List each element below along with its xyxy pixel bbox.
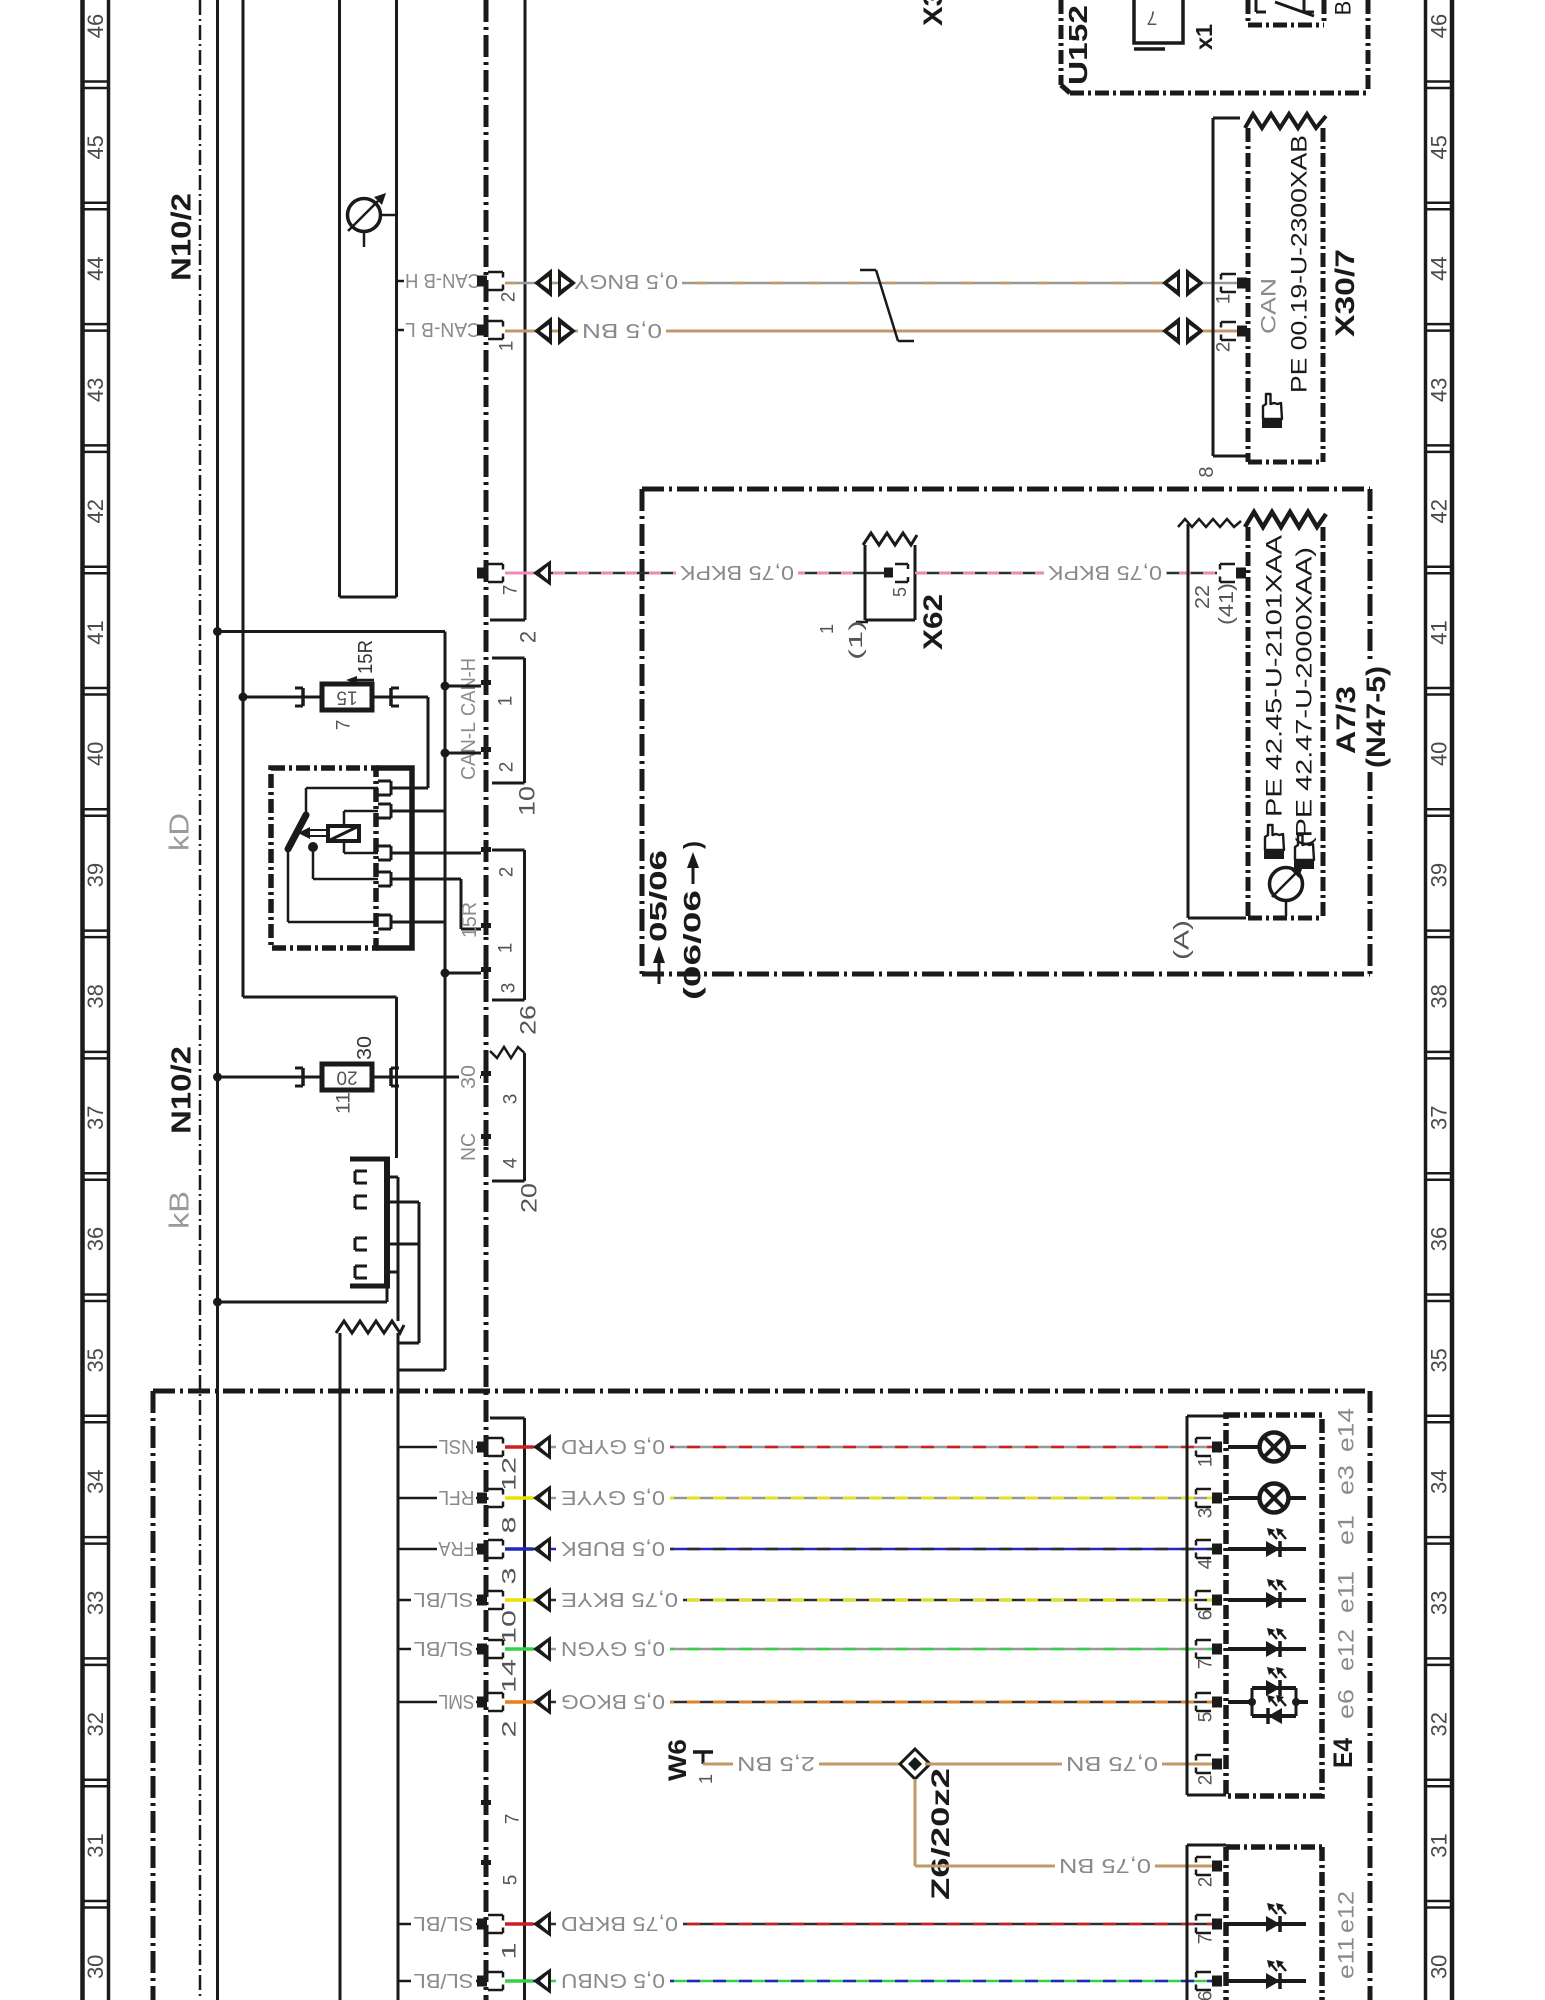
svg-text:2: 2 bbox=[1196, 1877, 1217, 1888]
svg-text:CAN-B H: CAN-B H bbox=[405, 269, 481, 291]
fuse F20 terminals bbox=[301, 1068, 305, 1086]
relay internal wires bbox=[305, 788, 308, 815]
svg-text:1: 1 bbox=[817, 624, 837, 634]
E4 pin bbox=[1212, 1544, 1222, 1555]
ruler tick row 12 bbox=[83, 1536, 109, 1539]
svg-text:41: 41 bbox=[1427, 620, 1452, 644]
svg-text:e14: e14 bbox=[1334, 1408, 1359, 1452]
lamp housing dash-dot box bbox=[153, 1389, 1370, 1394]
E4 pin bbox=[1212, 1442, 1222, 1453]
wire 0,5 BNGY (CAN-B H) bbox=[505, 282, 1163, 285]
svg-text:e3: e3 bbox=[1334, 1465, 1359, 1495]
pin 7 BKPK bbox=[477, 568, 487, 579]
wire 0,75 BKPK left segment bbox=[505, 572, 865, 575]
svg-text:43: 43 bbox=[1427, 378, 1452, 402]
svg-text:33: 33 bbox=[83, 1591, 108, 1615]
E4 pin bbox=[1212, 1493, 1222, 1504]
svg-text:N10/2: N10/2 bbox=[166, 1046, 197, 1134]
E4 double LED e6 (pin5) bbox=[1228, 1700, 1252, 1704]
svg-text:SL/BL: SL/BL bbox=[414, 1912, 474, 1934]
E4 LED e1 (pin4) bbox=[1228, 1547, 1306, 1551]
svg-text:W6: W6 bbox=[664, 1739, 692, 1781]
ruler tick row 0 bbox=[83, 80, 109, 83]
svg-text:30: 30 bbox=[354, 1036, 376, 1060]
svg-text:34: 34 bbox=[1427, 1469, 1452, 1493]
svg-text:e11: e11 bbox=[1334, 1571, 1359, 1613]
svg-text:SL/BL: SL/BL bbox=[414, 1969, 474, 1991]
svg-text:38: 38 bbox=[83, 984, 108, 1008]
svg-text:3: 3 bbox=[499, 983, 520, 994]
svg-text:11: 11 bbox=[334, 1092, 355, 1114]
lower lamp unit box bbox=[1223, 1847, 1229, 2000]
component U152 dash-dot box bbox=[1059, 0, 1064, 85]
svg-text:20: 20 bbox=[336, 1067, 357, 1088]
wire label 0,75 BKPK right bbox=[1044, 560, 1166, 586]
svg-text:2: 2 bbox=[1196, 1775, 1217, 1786]
ruler tick row 3 bbox=[83, 444, 109, 447]
wire label 0,5 BKOG bbox=[556, 1689, 670, 1715]
svg-text:0,5 BNGY: 0,5 BNGY bbox=[574, 270, 678, 292]
svg-text:0,75 BN: 0,75 BN bbox=[1066, 1752, 1158, 1774]
E4 bracket bbox=[1186, 1416, 1189, 1795]
connector arrows CAN-B L (X30/7 side) bbox=[1162, 317, 1180, 346]
svg-text:30: 30 bbox=[458, 1065, 480, 1089]
pin 1 CAN-B L bbox=[477, 325, 487, 336]
E4 pin bbox=[1212, 1697, 1222, 1708]
wire 0,5 BN (CAN-B L) bbox=[505, 330, 1163, 333]
wire 0,5 BUBK bbox=[505, 1548, 1217, 1551]
A7/3 connector torn top zigzag bbox=[1245, 512, 1326, 527]
svg-text:44: 44 bbox=[83, 256, 108, 280]
svg-text:0,5 GYYE: 0,5 GYYE bbox=[561, 1486, 665, 1508]
svg-text:X62: X62 bbox=[918, 594, 948, 650]
transistor symbol in N10/2 bbox=[348, 199, 381, 232]
E4 lamp e14 (pin1) bbox=[1228, 1445, 1259, 1449]
svg-text:SL/BL: SL/BL bbox=[414, 1637, 474, 1659]
component A7/3 housing dash-dot box bbox=[642, 487, 1370, 492]
wire from box to comb bbox=[395, 997, 398, 1158]
svg-text:44: 44 bbox=[1427, 256, 1452, 280]
svg-text:(A): (A) bbox=[1171, 920, 1194, 960]
wire 0,75 BKYE bbox=[505, 1599, 1217, 1602]
lamp unit E4 box bbox=[1226, 1415, 1322, 1796]
ruler tick row 14 bbox=[83, 1778, 109, 1781]
svg-text:0,75 BKRD: 0,75 BKRD bbox=[561, 1912, 678, 1934]
relay coil bbox=[328, 826, 359, 841]
svg-text:(N47-5): (N47-5) bbox=[1361, 666, 1391, 768]
ruler tick row 6 bbox=[83, 808, 109, 811]
wire label 0,5 BN bbox=[578, 318, 666, 344]
svg-text:12: 12 bbox=[500, 1457, 521, 1491]
svg-text:32: 32 bbox=[83, 1712, 108, 1736]
svg-text:RFL: RFL bbox=[439, 1486, 475, 1508]
svg-text:7: 7 bbox=[501, 585, 522, 596]
comb connector bar bbox=[384, 1157, 390, 1288]
svg-text:N10/2: N10/2 bbox=[166, 193, 197, 281]
svg-text:33: 33 bbox=[1427, 1591, 1452, 1615]
svg-text:e6: e6 bbox=[1334, 1689, 1359, 1719]
svg-text:kB: kB bbox=[164, 1191, 195, 1229]
comb pins bbox=[355, 1170, 367, 1173]
ground point W6 bbox=[693, 1750, 713, 1754]
connector 26 bracket bbox=[523, 850, 526, 1000]
svg-text:x1: x1 bbox=[1191, 24, 1217, 50]
svg-text:(PE 42.47-U-2000XAA): (PE 42.47-U-2000XAA) bbox=[1292, 547, 1317, 847]
svg-text:E4: E4 bbox=[1328, 1738, 1358, 1768]
connector arrows CAN-B L (N10/2 side) bbox=[534, 317, 552, 346]
svg-text:e12: e12 bbox=[1334, 1891, 1359, 1933]
svg-text:CAN: CAN bbox=[1258, 278, 1281, 334]
svg-text:8: 8 bbox=[1196, 466, 1218, 477]
ruler tick row 4 bbox=[83, 565, 109, 568]
bus bar line x217 bbox=[216, 0, 219, 2000]
A7/3 bracket torn top bbox=[1178, 519, 1241, 527]
svg-text:2: 2 bbox=[499, 292, 520, 303]
svg-text:36: 36 bbox=[1427, 1227, 1452, 1251]
svg-text:45: 45 bbox=[83, 135, 108, 159]
svg-text:39: 39 bbox=[83, 863, 108, 887]
relay bold frame bbox=[376, 768, 412, 948]
svg-text:7: 7 bbox=[1196, 1659, 1217, 1670]
fuse F15 bbox=[322, 684, 372, 710]
svg-text:2: 2 bbox=[516, 631, 541, 643]
pin 2 bbox=[481, 847, 491, 852]
E4 LED e12 (pin7) bbox=[1228, 1647, 1306, 1651]
svg-text:46: 46 bbox=[1427, 14, 1452, 38]
svg-text:10: 10 bbox=[515, 786, 540, 816]
wire 0,75 BN to lower unit pin 2 bbox=[915, 1865, 1217, 1868]
svg-text:15: 15 bbox=[336, 687, 357, 708]
lamp wire row SL/BL y=1649 bbox=[397, 1648, 477, 1651]
lamp wire row SL/BL y=1981 bbox=[397, 1980, 477, 1983]
A7/3 hand symbol 2 bbox=[1294, 835, 1314, 869]
svg-text:NC: NC bbox=[458, 1133, 480, 1161]
connector arrows CAN-B H (X30/7 side) bbox=[1162, 269, 1180, 298]
svg-text:e11: e11 bbox=[1334, 1937, 1359, 1979]
svg-text:30: 30 bbox=[1427, 1955, 1452, 1979]
svg-text:43: 43 bbox=[83, 378, 108, 402]
ruler right band bbox=[1424, 0, 1428, 2000]
relay output wires bbox=[391, 787, 428, 790]
svg-text:05/06: 05/06 bbox=[646, 850, 673, 942]
A7/3 name (N47-5) bbox=[1360, 662, 1391, 772]
lamp wire row SML y=1702 bbox=[397, 1701, 477, 1704]
relay switch arm bbox=[288, 815, 306, 849]
E4 pin bbox=[1212, 1595, 1222, 1606]
svg-text:0,5 BUBK: 0,5 BUBK bbox=[560, 1537, 665, 1559]
svg-text:(41): (41) bbox=[1216, 583, 1238, 625]
comb pin wires bbox=[390, 1176, 398, 1179]
relay dash-dot box bbox=[271, 768, 376, 948]
svg-text:PE 42.45-U-2101XAA: PE 42.45-U-2101XAA bbox=[1262, 535, 1287, 817]
wire 0,5 GYRD bbox=[505, 1446, 1217, 1449]
ruler tick row 5 bbox=[83, 687, 109, 690]
svg-text:41: 41 bbox=[83, 620, 108, 644]
svg-text:22: 22 bbox=[1192, 585, 1214, 609]
wire 0,5 GYYE bbox=[505, 1497, 1217, 1500]
wire BN branch down bbox=[914, 1779, 917, 1866]
lamp connector bar bbox=[523, 1418, 526, 2000]
svg-text:0,5 GNBU: 0,5 GNBU bbox=[561, 1969, 665, 1991]
pin label CAN-B H bbox=[397, 280, 405, 283]
X62 pin 5 bbox=[884, 568, 893, 578]
svg-text:5: 5 bbox=[890, 587, 910, 597]
wire kD boundary dash-dot x200 bbox=[199, 0, 202, 2000]
wire label 0,5 GYYE bbox=[556, 1485, 670, 1511]
ruler tick row 11 bbox=[83, 1415, 109, 1418]
X30/7 bracket bbox=[1212, 118, 1215, 456]
E4 lamp e3 (pin3) bbox=[1228, 1496, 1259, 1500]
relay pins bbox=[378, 780, 391, 783]
E4 pin bbox=[1212, 1644, 1222, 1655]
svg-text:30: 30 bbox=[83, 1955, 108, 1979]
svg-text:20: 20 bbox=[517, 1183, 542, 1213]
wire 0,5 GYGN bbox=[505, 1648, 1217, 1651]
svg-text:0,75 BN: 0,75 BN bbox=[1059, 1854, 1151, 1876]
pin 1 CAN-H bbox=[481, 680, 491, 685]
svg-text:45: 45 bbox=[1427, 135, 1452, 159]
svg-text:0,75 BKPK: 0,75 BKPK bbox=[1047, 561, 1162, 583]
lower unit LED (pin 4) bbox=[1228, 1979, 1306, 1983]
pin 3 bbox=[481, 967, 491, 972]
svg-text:U152: U152 bbox=[1063, 5, 1093, 85]
X62 inner wire bbox=[865, 572, 884, 575]
connector 20 bracket with zigzag top bbox=[490, 1047, 525, 1058]
svg-text:0,75 BKPK: 0,75 BKPK bbox=[679, 561, 794, 583]
svg-text:7: 7 bbox=[1147, 7, 1158, 28]
svg-text:2: 2 bbox=[1214, 342, 1235, 353]
svg-text:kD: kD bbox=[164, 813, 195, 851]
A7/3 bracket bbox=[1187, 524, 1190, 918]
svg-text:1: 1 bbox=[1196, 1457, 1217, 1468]
A7/3 pin 22 bbox=[1236, 568, 1246, 579]
wire 0,5 BKOG bbox=[505, 1701, 1217, 1704]
svg-text:5: 5 bbox=[501, 1875, 522, 1886]
svg-text:(1): (1) bbox=[846, 620, 866, 660]
svg-text:31: 31 bbox=[1427, 1833, 1452, 1857]
fuse F20 wires bbox=[213, 1073, 222, 1082]
svg-text:2,5 BN: 2,5 BN bbox=[737, 1752, 815, 1774]
svg-text:CAN-B L: CAN-B L bbox=[405, 318, 481, 340]
lower unit bracket bbox=[1186, 1845, 1189, 2000]
wire label 0,5 BNGY bbox=[570, 268, 682, 294]
connector X30/7 box bbox=[1246, 128, 1251, 462]
X30/7 hand symbol bbox=[1262, 394, 1282, 428]
svg-text:2: 2 bbox=[497, 867, 518, 878]
svg-text:(06/06: (06/06 bbox=[680, 890, 707, 1000]
wire 0,5 GNBU bbox=[505, 1980, 1217, 1983]
svg-text:40: 40 bbox=[83, 742, 108, 766]
svg-text:A7/3: A7/3 bbox=[1331, 686, 1361, 754]
svg-text:14: 14 bbox=[500, 1658, 521, 1693]
svg-text:3: 3 bbox=[1196, 1508, 1217, 1519]
wire 0,75 BKRD bbox=[505, 1923, 1217, 1926]
svg-text:CAN-L: CAN-L bbox=[458, 722, 480, 780]
svg-text:35: 35 bbox=[1427, 1348, 1452, 1372]
harness boundary dash-dot x486 bbox=[484, 0, 489, 2000]
svg-text:6: 6 bbox=[1196, 1610, 1217, 1621]
wire 2,5 BN bbox=[703, 1763, 905, 1766]
pin 30 bbox=[481, 1071, 491, 1076]
svg-text:34: 34 bbox=[83, 1469, 108, 1493]
ruler left band bbox=[80, 0, 85, 2000]
svg-text:5: 5 bbox=[1196, 1712, 1217, 1723]
svg-text:1: 1 bbox=[1214, 294, 1235, 305]
A7/3 inner connector box bbox=[1246, 527, 1251, 918]
svg-text:37: 37 bbox=[1427, 1105, 1452, 1129]
fuse F15 terminals bbox=[301, 688, 305, 706]
ruler tick row 15 bbox=[83, 1900, 109, 1903]
svg-text:36: 36 bbox=[83, 1227, 108, 1251]
fuse F15 wires bbox=[239, 693, 248, 702]
U152 inner connector box bbox=[1246, 0, 1251, 25]
ruler tick row 9 bbox=[83, 1172, 109, 1175]
svg-text:0,75 BKYE: 0,75 BKYE bbox=[561, 1588, 678, 1610]
U152 inner square with 7 bbox=[1134, 0, 1183, 43]
svg-text:38: 38 bbox=[1427, 984, 1452, 1008]
connector 2 bracket bar bbox=[524, 0, 527, 620]
ruler tick row 10 bbox=[83, 1293, 109, 1296]
pin 2 CAN-L bbox=[481, 747, 491, 752]
wire 0,75 BKPK right segment bbox=[915, 572, 1217, 575]
svg-text:0,5 BN: 0,5 BN bbox=[582, 319, 662, 341]
splice Z6/20z2 bbox=[900, 1749, 930, 1779]
pin 2 CAN-B H bbox=[477, 276, 487, 287]
ruler tick row 8 bbox=[83, 1051, 109, 1054]
control unit N10/2 inner box (transistor) bbox=[338, 0, 341, 597]
svg-text:4: 4 bbox=[1196, 1558, 1217, 1569]
svg-text:15R: 15R bbox=[459, 902, 481, 938]
A7/3 hand symbol 1 bbox=[1264, 825, 1284, 859]
wire 0,75 BN to E4 pin 2 bbox=[925, 1763, 1217, 1766]
svg-text:1: 1 bbox=[496, 943, 517, 954]
lower unit LED (pin7) bbox=[1228, 1922, 1306, 1926]
svg-text:31: 31 bbox=[83, 1833, 108, 1857]
svg-text:32: 32 bbox=[1427, 1712, 1452, 1736]
A7/3 transistor symbol bbox=[1270, 868, 1303, 901]
svg-text:1: 1 bbox=[696, 1774, 716, 1784]
svg-text:NSL: NSL bbox=[439, 1435, 475, 1457]
unused pin 5 bbox=[481, 1860, 491, 1865]
svg-text:7: 7 bbox=[334, 720, 355, 731]
lamp wire row SL/BL y=1600 bbox=[397, 1599, 477, 1602]
lamp wire row NSL y=1447 bbox=[397, 1446, 477, 1449]
pin 4 NC bbox=[481, 1134, 491, 1139]
svg-text:SL/BL: SL/BL bbox=[414, 1588, 474, 1610]
svg-text:4: 4 bbox=[501, 1157, 522, 1168]
wire label 0,5 GYGN bbox=[556, 1636, 670, 1662]
svg-text:46: 46 bbox=[83, 14, 108, 38]
U152 inner pins bbox=[1255, 0, 1258, 12]
svg-text:42: 42 bbox=[83, 499, 108, 523]
svg-text:Z6/20z2: Z6/20z2 bbox=[927, 1768, 955, 1900]
svg-text:26: 26 bbox=[516, 1005, 541, 1035]
arrow BKPK bbox=[533, 560, 551, 586]
svg-text:2: 2 bbox=[497, 762, 518, 773]
svg-text:0,5 GYGN: 0,5 GYGN bbox=[561, 1637, 665, 1659]
lamp wire row SL/BL y=1924 bbox=[397, 1923, 477, 1926]
X30/7 pin 2 bbox=[1237, 326, 1247, 337]
wire label 0,5 BUBK bbox=[556, 1536, 670, 1562]
svg-text:B: B bbox=[1331, 1, 1356, 16]
svg-text:FRA: FRA bbox=[438, 1537, 475, 1559]
pin label CAN-B L bbox=[397, 329, 405, 332]
X62 bottom tick and pin label 1 bbox=[856, 621, 868, 624]
svg-text:0,5 GYRD: 0,5 GYRD bbox=[561, 1435, 665, 1457]
svg-text:6: 6 bbox=[1196, 1991, 1217, 2000]
connector 10 bracket bbox=[523, 658, 526, 783]
svg-text:35: 35 bbox=[83, 1348, 108, 1372]
svg-text:1: 1 bbox=[496, 696, 517, 707]
svg-text:0,5 BKOG: 0,5 BKOG bbox=[561, 1690, 665, 1712]
svg-text:40: 40 bbox=[1427, 742, 1452, 766]
X30/7 box torn top zigzag bbox=[1245, 114, 1326, 128]
svg-text:SML: SML bbox=[439, 1690, 475, 1712]
svg-text:3: 3 bbox=[500, 1568, 521, 1585]
svg-text:15R: 15R bbox=[355, 640, 377, 674]
svg-text:e1: e1 bbox=[1334, 1515, 1359, 1545]
twisted pair crossover symbol bbox=[860, 269, 876, 272]
wire label 0,5 GYRD bbox=[556, 1434, 670, 1460]
wire to CAN feed bbox=[218, 630, 446, 633]
svg-text:42: 42 bbox=[1427, 499, 1452, 523]
svg-text:39: 39 bbox=[1427, 863, 1452, 887]
svg-text:): ) bbox=[680, 841, 707, 849]
svg-text:7: 7 bbox=[1196, 1934, 1217, 1945]
U152 switch diagonal bbox=[1275, 2, 1314, 16]
ruler tick row 2 bbox=[83, 323, 109, 326]
pin 1 15R bbox=[481, 923, 491, 928]
comb bottom wire bbox=[386, 1288, 389, 1302]
wire label 0,75 BKPK left bbox=[676, 560, 798, 586]
svg-text:1: 1 bbox=[500, 1943, 521, 1960]
relay actuating link bbox=[307, 829, 328, 831]
lamp wire row FRA y=1549 bbox=[397, 1548, 477, 1551]
unused pin 7 bbox=[481, 1800, 491, 1805]
junction dot kl15 bbox=[213, 627, 222, 636]
svg-text:3: 3 bbox=[501, 1094, 522, 1105]
svg-text:37: 37 bbox=[83, 1105, 108, 1129]
E4 LED e11 (pin6) bbox=[1228, 1598, 1306, 1602]
ruler tick row 7 bbox=[83, 929, 109, 932]
ruler tick row 1 bbox=[83, 202, 109, 205]
X30/7 pin 1 bbox=[1237, 278, 1247, 289]
svg-text:2: 2 bbox=[500, 1721, 521, 1738]
svg-text:8: 8 bbox=[500, 1517, 521, 1534]
connector X62 box bbox=[864, 545, 867, 620]
svg-text:X3: X3 bbox=[918, 0, 948, 26]
lamp wire row RFL y=1498 bbox=[397, 1497, 477, 1500]
wire label 0,75 BKYE bbox=[556, 1587, 683, 1613]
ruler tick row 13 bbox=[83, 1657, 109, 1660]
svg-text:1: 1 bbox=[497, 341, 518, 352]
svg-text:7: 7 bbox=[503, 1814, 524, 1825]
connector arrows CAN-B H (N10/2 side) bbox=[534, 269, 552, 298]
svg-text:e12: e12 bbox=[1334, 1629, 1359, 1671]
N10/2 inner box lower edge bbox=[243, 996, 397, 999]
svg-text:X30/7: X30/7 bbox=[1330, 249, 1360, 337]
svg-text:PE 00.19-U-2300XAB: PE 00.19-U-2300XAB bbox=[1287, 135, 1312, 393]
harness ribbon to lamp units bbox=[397, 1177, 400, 1321]
bus bar line x243 (circuit 15 rail) bbox=[242, 0, 245, 997]
fuse F20 bbox=[322, 1064, 372, 1090]
